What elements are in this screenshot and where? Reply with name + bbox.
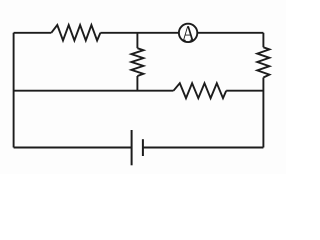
resistor R2 (right vertical) bbox=[257, 47, 269, 77]
wire right-bottom (R2 down to bottom corner) bbox=[262, 78, 264, 148]
resistor R4 (middle vertical) bbox=[131, 48, 143, 76]
wire bottom-right (battery to right corner) bbox=[143, 147, 264, 149]
wire top-left (node between left corner and R1) bbox=[14, 32, 52, 34]
wire bottom-left (left corner to battery) bbox=[14, 147, 132, 149]
wire left (left side, top corner to bottom corner) bbox=[13, 33, 15, 148]
resistor R3 (middle horizontal) bbox=[174, 83, 227, 98]
wire branch-bottom (R4 down to middle wire) bbox=[136, 76, 138, 91]
battery B1 long plate (positive) bbox=[131, 130, 133, 165]
wire top-middle (R1 to ammeter) bbox=[100, 32, 178, 34]
wire top-right (ammeter to right corner) bbox=[198, 32, 264, 34]
wire middle-right (R3 to right wire) bbox=[226, 90, 263, 92]
ammeter A1 bbox=[179, 24, 197, 42]
wire middle-left (left wire to R3) bbox=[14, 90, 174, 92]
battery B1 short plate (negative) bbox=[142, 139, 144, 156]
resistor R1 (top horizontal) bbox=[51, 25, 100, 41]
wire branch-top (top wire down to R4) bbox=[136, 33, 138, 48]
wire right-top (corner down to R2) bbox=[262, 33, 264, 48]
